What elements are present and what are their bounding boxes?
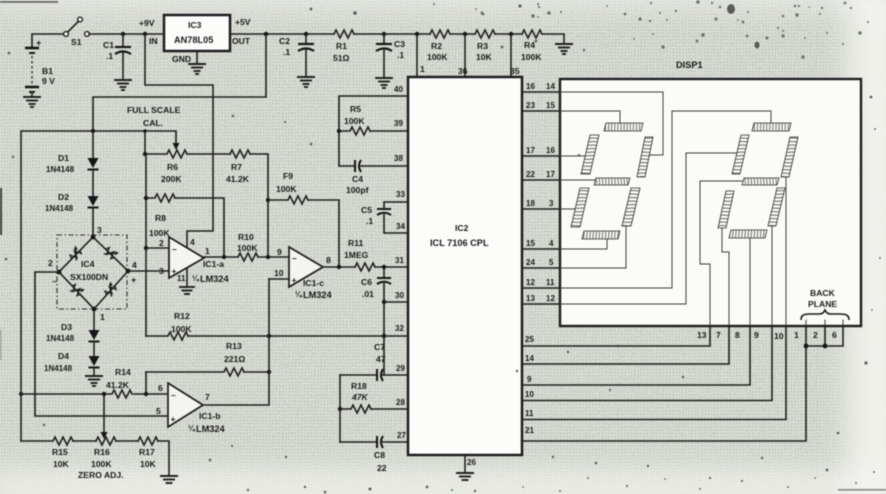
wire bridge pin4 to IC1-a pin3 [128,270,169,272]
svg-text:11: 11 [177,274,186,283]
svg-text:DISP1: DISP1 [676,60,703,70]
svg-text:AN78L05: AN78L05 [174,35,213,45]
svg-text:ICL 7106 CPL: ICL 7106 CPL [430,238,489,248]
svg-text:1N4148: 1N4148 [46,334,75,343]
node bridge right [126,269,131,274]
wire seg line 24-5 [522,258,560,268]
wire R12 to pin 32 line [188,335,384,337]
resistor R1 51ohm [333,30,354,63]
bridge dashed box IC4 [57,235,127,309]
svg-text:13: 13 [697,330,707,340]
node pin31/C6 [382,265,386,269]
svg-text:IC3: IC3 [188,20,202,30]
node bridge top [91,235,96,240]
page edge marks [0,188,2,235]
svg-text:30: 30 [395,291,404,300]
svg-text:FULL SCALE: FULL SCALE [127,105,181,115]
resistor R7 41.2K [226,150,250,184]
wire R18 node down to C8 [339,409,341,442]
svg-text:9: 9 [754,330,759,340]
node pin30 [382,300,386,304]
svg-text:+: + [171,414,176,424]
wire seg line 17-16 [522,146,560,156]
digit1 seg a [604,123,643,131]
svg-text:27: 27 [397,431,406,440]
svg-text:16: 16 [526,82,535,91]
wire D4 to ground [93,368,95,375]
ground D4 [86,376,102,386]
svg-text:1N4148: 1N4148 [46,165,75,174]
wire pin 35 drop [510,34,512,77]
display internal wire pin16 to digit1 seg f [560,155,586,157]
svg-text:35: 35 [510,66,520,76]
node R14 left tee [19,392,23,396]
digit1 seg d [582,231,620,239]
node +5V drop [264,32,268,36]
resistor R4 100K [521,30,542,62]
wire seg line 22-17 [522,170,560,180]
svg-text:51Ω: 51Ω [333,53,350,63]
diode D2 1N4148 [45,192,99,213]
display internal wire pin14 to digit1 seg b [560,92,663,155]
svg-text:47K: 47K [351,392,369,402]
svg-text:33: 33 [396,190,405,199]
diode D3 1N4148 [46,322,100,343]
battery B1 9V [25,38,55,96]
resistor R2 100K [427,30,450,62]
node R5 left [337,129,341,133]
svg-text:IC4: IC4 [81,259,95,269]
node D1 top [91,129,95,133]
wire IC1-a output to R10 [204,256,238,258]
svg-text:6: 6 [158,383,163,393]
node R8 left [144,196,148,200]
wire +9V feed to IC1 pin4 [145,34,213,247]
wire pin32 node down to pin29 line [383,336,385,375]
wire +5V feed down to D1 chain [93,34,266,131]
wire IC1-a pin11 to ground [186,268,188,286]
wire reference rail left [21,131,145,441]
digit1 seg b [637,137,653,177]
svg-text:LM324: LM324 [196,424,225,434]
wire pin11 to display pin10 [522,326,786,420]
wire pin25 to display pin13 [522,326,710,346]
svg-text:100K: 100K [276,184,297,194]
node bridge bottom [92,307,97,312]
svg-text:C3: C3 [394,39,405,49]
svg-text:100K: 100K [171,324,192,334]
resistor R3 10K [475,30,495,62]
svg-text:4: 4 [190,237,195,247]
resistor R10 100K [237,232,258,261]
svg-text:LM324: LM324 [303,290,332,300]
wire digit2 seg c down to pin9 [771,226,773,326]
ground R4 end [556,44,572,54]
svg-text:100K: 100K [149,228,170,238]
node pin1 drop [415,32,419,36]
svg-text:IC2: IC2 [455,223,469,233]
svg-text:+: + [131,275,136,285]
node wiper corner [143,129,147,133]
svg-text:R11: R11 [348,238,364,248]
wire digit2 seg e down to pin7 [722,228,729,326]
wire seg line 15-4 [522,239,560,249]
svg-text:1: 1 [100,312,105,322]
svg-text:R8: R8 [155,213,166,223]
resistor R5 100K [339,104,370,135]
svg-text:15: 15 [526,239,535,248]
wire IC1-c pin10 [269,278,289,280]
IC2 pin 26 ground [457,455,476,480]
svg-text:10K: 10K [140,459,157,469]
svg-text:4: 4 [549,239,554,248]
digit2 seg c [768,188,785,226]
svg-text:100K: 100K [91,459,112,469]
capacitor C1 [103,34,131,79]
node output/F9 [337,265,341,269]
digit2 seg g [742,178,779,185]
svg-text:–: – [52,276,57,286]
node C1 junction [121,32,125,36]
svg-text:7: 7 [205,392,210,402]
svg-text:D3: D3 [61,322,72,332]
svg-text:IC1-b: IC1-b [199,411,220,421]
wire digit2 seg g down to pin13 [700,181,742,326]
svg-text:.1: .1 [366,216,373,226]
svg-text:R16: R16 [94,447,110,457]
node backplane pin1 [804,344,809,349]
digit2 seg a [752,123,791,131]
IC2 box [408,77,522,455]
svg-text:13: 13 [526,294,535,303]
wire pin 1 drop into IC2 [416,34,418,77]
resistor R13 221ohm [146,341,245,376]
svg-text:1: 1 [420,64,425,74]
svg-text:100K: 100K [427,52,448,62]
node pin10 drop joins R12 [267,334,271,338]
svg-text:14: 14 [525,354,534,363]
wire bridge pin2 to IC1-b pin5 [35,272,168,416]
wire D3 to D4 [93,342,95,356]
svg-text:IC1-c: IC1-c [303,278,324,288]
svg-text:9: 9 [277,247,282,257]
node R13/IC1-b out/pin10 [267,370,271,374]
wire inverting node vertical R6/R8/pin2/R12 [145,154,147,336]
svg-text:R1: R1 [336,41,347,51]
svg-text:3: 3 [97,225,102,235]
svg-text:R18: R18 [351,381,367,391]
svg-text:10: 10 [525,390,534,399]
wire digit2 seg d down to pin8 [749,238,751,326]
svg-text:D4: D4 [58,351,69,361]
wire pin 30 stub [384,301,409,303]
IC3 AN78L05 regulator [149,15,251,51]
svg-text:12: 12 [526,278,535,287]
svg-text:R17: R17 [139,447,155,457]
capacitor C5 .1 [361,202,409,233]
svg-text:221Ω: 221Ω [224,354,245,364]
svg-text:9 V: 9 V [42,76,55,86]
svg-text:32: 32 [395,324,404,333]
svg-text:23: 23 [526,101,535,110]
svg-text:R2: R2 [431,41,442,51]
node wiper tap on R14 line [102,392,106,396]
svg-text:C1: C1 [103,40,114,50]
wire R3 to R4 [495,33,522,35]
svg-text:C4: C4 [352,174,363,184]
op-amp IC1-c [274,247,332,300]
wire backplane pin1 [805,320,807,326]
digit2 seg b [781,137,798,177]
svg-text:C5: C5 [361,205,372,215]
svg-text:1MEG: 1MEG [344,250,369,260]
wire seg line 16-14 [522,82,560,92]
resistor R12 100K [146,311,192,340]
wire IC1-b output up to R13 node [203,372,269,405]
wire seg line 23-15 [522,101,560,111]
node pin36 [463,32,467,36]
wire seg line 18-3 [522,199,560,209]
wire pin9 to display pin8 [522,326,750,385]
svg-text:D1: D1 [58,153,69,163]
ground C2 [298,77,314,87]
potentiometer R16 100K [78,437,124,480]
svg-text:SX100DN: SX100DN [70,272,108,282]
svg-text:1N4148: 1N4148 [45,204,74,213]
wire IC1-c output to R11 [323,266,355,268]
svg-text:R5: R5 [350,104,361,114]
wire R8 right feedback to IC1-a output [175,198,224,257]
display internal wire pin5 to digit1 seg c [560,225,626,268]
wire D1 to D2 [92,170,94,196]
svg-text:14: 14 [546,82,555,91]
svg-text:6: 6 [832,330,837,340]
wire R18 to pin 28 [371,408,409,410]
svg-text:F9: F9 [283,171,293,181]
svg-text:S1: S1 [71,37,82,47]
svg-text:100K: 100K [237,243,258,253]
svg-text:10: 10 [774,331,784,341]
svg-text:200K: 200K [161,174,182,184]
svg-text:28: 28 [396,398,405,407]
svg-text:BACK: BACK [810,288,836,298]
ground C3 [376,78,392,88]
wire R5 node down to C4 [338,131,340,166]
svg-text:+9V: +9V [139,18,155,28]
display internal wire pin17 to digit1 seg g [560,179,596,181]
op-amp IC1-b [156,383,225,434]
capacitor C2 [279,34,314,76]
node IC1-a pin2 [144,246,148,250]
svg-text:11: 11 [525,409,534,418]
strain gauge zigzags on arms [67,244,119,298]
wire battery top to switch S1 [32,34,63,48]
svg-text:7: 7 [716,330,721,340]
svg-text:R3: R3 [477,41,488,51]
wire C3 to R2, pin1 node [384,33,430,35]
svg-text:5: 5 [549,258,554,267]
wire R13 left down to pin6 [145,372,147,394]
wire R6 to R7 [187,153,230,155]
svg-text:17: 17 [546,170,555,179]
svg-text:10: 10 [274,268,284,278]
op-amp IC1-a [159,237,229,284]
svg-text:C6: C6 [361,277,372,287]
capacitor C3 [376,34,405,77]
svg-text:9: 9 [527,375,532,384]
node pin9 [266,255,270,259]
svg-text:11: 11 [546,278,555,287]
wire R16 to R17 [116,440,138,442]
svg-text:18: 18 [526,199,535,208]
svg-text:3: 3 [549,199,554,208]
digit2 seg d [729,230,767,238]
svg-text:3: 3 [159,266,164,276]
wire D2 to bridge pin 3 [92,208,94,237]
svg-text:OUT: OUT [232,36,251,46]
svg-text:GND: GND [172,54,191,64]
wire C7 left down to R18 [339,375,341,409]
switch S1 [64,17,90,47]
wire R7 right down to F9 node [250,154,268,200]
wire R16 wiper [103,394,105,433]
wire bridge pin1 to D3 [93,309,95,330]
svg-text:D2: D2 [58,192,69,202]
wire pin2 to IC1-a [146,247,169,249]
svg-text:8: 8 [326,255,331,265]
capacitor C8 22 [340,436,409,473]
svg-text:+: + [292,275,297,285]
svg-text:25: 25 [525,335,534,344]
wire R2 to R3 [450,33,475,35]
svg-text:22: 22 [526,170,535,179]
svg-text:38: 38 [394,154,403,163]
ground R17 [161,476,177,483]
svg-text:IC1-a: IC1-a [203,259,224,269]
wire seg line 12-11 [522,278,560,288]
display internal wire pin15 to digit1 seg a [560,111,620,124]
svg-text:–: – [292,253,297,263]
svg-text:LM324: LM324 [200,274,229,284]
svg-text:–: – [171,390,176,400]
bridge IC4 SX100DN arms [59,237,128,309]
node R6 left [143,152,147,156]
capacitor C7 47 [340,342,409,381]
DISP1 box [560,79,861,326]
svg-text:41.2K: 41.2K [106,380,130,390]
wire seg line 13-12 [522,294,560,304]
wire backplane pin2 [824,320,826,326]
svg-text:12: 12 [546,294,555,303]
svg-text:41.2K: 41.2K [226,174,250,184]
svg-text:29: 29 [396,364,405,373]
svg-text:24: 24 [526,258,535,267]
resistor R18 47K [340,381,371,413]
node pin32 [382,334,386,338]
wire pin14 to display pin7 [522,326,729,364]
node C2 [304,32,308,36]
svg-text:17: 17 [526,146,535,155]
wire R17 to ground [158,441,169,475]
svg-text:4: 4 [132,260,137,270]
backplane brace [801,310,849,320]
wire feedback node F9 to pin9 [267,200,269,257]
wire pin10 vertical [268,279,270,372]
wire pin21 to backplane [522,346,806,441]
svg-text:10K: 10K [476,52,493,62]
resistor R11 1MEG [344,238,375,271]
capacitor C4 100pf [339,160,409,195]
node pin6 [144,392,148,396]
svg-text:2: 2 [813,330,818,340]
digit2 seg f [732,135,749,174]
svg-text:R15: R15 [52,447,68,457]
svg-text:1N4148: 1N4148 [44,364,73,373]
svg-text:15: 15 [546,101,555,110]
svg-text:R6: R6 [167,162,178,172]
node pin35 [509,32,513,36]
svg-text:C7: C7 [374,342,385,352]
svg-text:5: 5 [156,406,161,416]
svg-text:22: 22 [377,463,387,473]
svg-text:40: 40 [394,85,403,94]
wire R15 to R16 [73,440,96,442]
resistor R8 100K [146,194,175,238]
svg-text:PLANE: PLANE [808,299,837,309]
display internal wire pin3 to digit1 seg e [560,208,577,210]
wire S1 to IC3 IN [89,33,164,35]
svg-text:+5V: +5V [235,17,251,27]
svg-text:+: + [36,38,41,48]
wire R10 to IC1-c pin9 [258,256,289,258]
potentiometer R6 200K wiper link [145,131,176,154]
node IC1-a output [222,255,226,259]
svg-text:B1: B1 [42,66,53,76]
svg-text:R13: R13 [226,341,242,351]
svg-text:2: 2 [48,258,53,268]
svg-text:+: + [172,266,177,276]
svg-text:1: 1 [205,246,210,256]
node +9V IN junction [143,32,147,36]
ground C1 [115,80,131,90]
digit2 seg e [718,191,734,228]
svg-text:2: 2 [159,238,164,248]
svg-text:10K: 10K [53,459,70,469]
wire pin 40 stub [339,96,409,131]
display internal wire pin4 to digit1 seg d [560,238,607,249]
svg-text:.1: .1 [106,51,113,61]
svg-text:100K: 100K [344,116,365,126]
svg-text:26: 26 [467,458,476,467]
capacitor C6 .01 [361,267,391,302]
svg-text:R12: R12 [174,311,190,321]
svg-text:R7: R7 [231,162,242,172]
wire R11 to pin 31 [375,266,409,268]
svg-text:.1: .1 [397,50,404,60]
digit1 seg g [594,178,630,185]
ground IC1-a [180,287,194,294]
wire R1 to C3 [354,33,384,35]
resistor F9 100K [268,171,308,204]
diode D4 1N4148 [44,351,100,373]
ground battery [24,97,40,107]
display internal wire pin11 to digit2 seg a [560,111,771,288]
wire R13 right to node [244,371,269,373]
node F9 left [266,198,270,202]
svg-text:47: 47 [376,354,386,364]
svg-text:1: 1 [794,330,799,340]
svg-text:21: 21 [525,426,534,435]
